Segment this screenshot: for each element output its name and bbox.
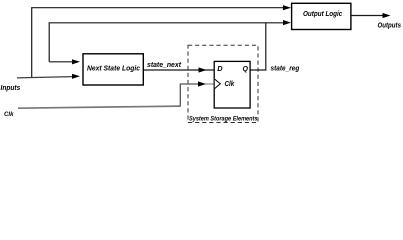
svg-text:Clk: Clk xyxy=(4,111,14,118)
svg-text:Output Logic: Output Logic xyxy=(303,9,342,18)
svg-text:Inputs: Inputs xyxy=(1,83,21,92)
svg-text:state_reg: state_reg xyxy=(271,64,300,73)
svg-text:System Storage Elements: System Storage Elements xyxy=(189,115,258,122)
svg-text:state_next: state_next xyxy=(147,60,182,69)
svg-text:Outputs: Outputs xyxy=(378,20,402,29)
svg-text:Clk: Clk xyxy=(225,81,236,88)
svg-text:Q: Q xyxy=(243,66,249,73)
svg-text:D: D xyxy=(217,64,223,73)
svg-text:Next State Logic: Next State Logic xyxy=(87,63,140,72)
